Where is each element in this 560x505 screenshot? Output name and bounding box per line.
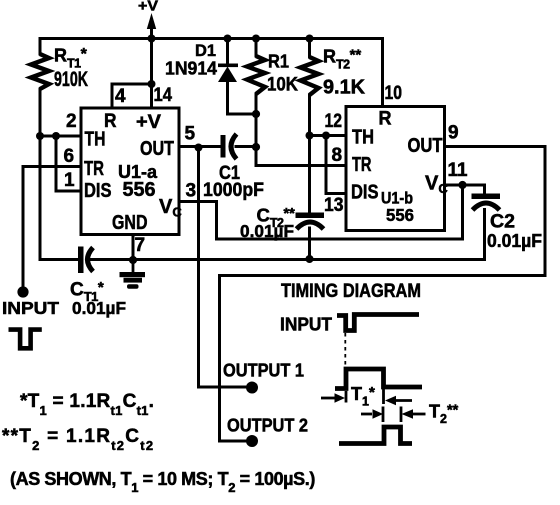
wire RT2 bottom lead to node TH-B (308, 95, 311, 136)
junction node TH-A at RT1 (36, 132, 44, 140)
svg-text:OUTPUT 2: OUTPUT 2 (227, 416, 308, 436)
wire +V stem to rail (150, 26, 153, 39)
wire trigger pin6 U1-a from INPUT (23, 165, 80, 168)
wire diode D1 top lead (226, 39, 229, 64)
svg-text:0.01µF: 0.01µF (487, 231, 542, 251)
wire INPUT drop (22, 167, 25, 289)
diode D1 1N914 (218, 64, 238, 83)
wire threshold pin12 U1-b (310, 134, 347, 137)
wire RT1 top lead (39, 39, 42, 55)
timing diagram T2 left arrow (361, 407, 383, 423)
timing diagram OUTPUT 2 waveform (339, 427, 412, 444)
svg-text:TR: TR (84, 158, 104, 180)
wire R1 bottom lead through node to TR-B (255, 94, 258, 166)
junction node D1/R1 (252, 110, 260, 118)
timing diagram trigger dashed line (344, 333, 346, 368)
svg-text:TIMING DIAGRAM: TIMING DIAGRAM (281, 281, 421, 302)
svg-text:TR: TR (352, 154, 372, 176)
svg-text:556: 556 (123, 179, 156, 201)
svg-text:9.1K: 9.1K (323, 77, 366, 99)
wire output pin5 U1-a to C1 (180, 145, 221, 148)
svg-text:TH: TH (352, 127, 374, 149)
timing diagram T2 right arrow (401, 407, 426, 423)
wire reset pin10 U1-b to rail (381, 39, 384, 106)
resistor R1 10K zigzag (247, 56, 265, 94)
junction node on rail at R1 (252, 35, 260, 43)
wire +V down to pins 4-14 bracket (150, 39, 153, 85)
svg-text:DIS: DIS (351, 182, 379, 204)
svg-text:OUT: OUT (140, 138, 174, 160)
INPUT negative pulse glyph (11, 330, 40, 349)
+V supply arrow (147, 13, 156, 29)
svg-text:+V: +V (136, 112, 161, 133)
timing diagram INPUT waveform (337, 315, 419, 331)
OUTPUT 1 terminal dot (246, 382, 258, 394)
svg-text:R1: R1 (268, 51, 289, 72)
wire node TH-A down to CT1 (40, 136, 77, 260)
timing diagram T1 right arrow (384, 389, 413, 405)
timing diagram OUTPUT 1 waveform (335, 369, 422, 389)
wire CT2 bottom lead to ground rail (308, 228, 311, 260)
svg-text:GND: GND (112, 212, 148, 234)
junction node on rail at RT2 (306, 35, 314, 43)
svg-text:INPUT: INPUT (280, 315, 332, 335)
wire VC pin3 U1-a routing to VC pin11 U1-b (180, 185, 463, 239)
svg-text:5: 5 (185, 124, 196, 145)
wire output pin9 U1-b routing down to OUTPUT 2 (220, 147, 546, 442)
wire output-1 drop from node OUT-A (197, 147, 200, 388)
svg-text:1: 1 (64, 170, 75, 191)
svg-text:11: 11 (448, 160, 468, 181)
resistor RT1 910K zigzag (31, 54, 49, 89)
wire tie pins 2-6-1 U1-a (55, 136, 58, 191)
wire trigger pin8 U1-b (256, 164, 346, 167)
svg-text:+V: +V (138, 0, 158, 15)
ground symbol (120, 260, 146, 289)
wire diode D1 bottom lead to node R1 (228, 82, 257, 115)
junction node TH-B tie (322, 132, 330, 140)
wire OUTPUT 1 stub (199, 386, 252, 389)
svg-text:OUT: OUT (408, 135, 443, 157)
svg-text:R: R (104, 111, 117, 132)
wire C1 right lead to node TR-B (236, 145, 256, 148)
svg-text:4: 4 (115, 86, 126, 107)
junction node pins 4-14 (148, 80, 156, 88)
wire tie pins 12-13 U1-b (325, 136, 328, 194)
wire R1 top lead (255, 39, 258, 57)
junction node TH-B at RT2 (306, 132, 314, 140)
svg-text:910K: 910K (54, 68, 88, 91)
junction node on rail at D1 (224, 35, 232, 43)
svg-text:2: 2 (66, 111, 77, 132)
junction node ground pin7 (129, 256, 137, 264)
capacitor C1 plates (221, 134, 237, 159)
svg-text:1N914: 1N914 (165, 58, 218, 79)
capacitor CT1 plates (78, 247, 93, 274)
wire C2 bottom lead (483, 210, 486, 260)
svg-text:6: 6 (64, 146, 75, 167)
wire +V top supply rail (40, 37, 383, 40)
svg-text:10: 10 (385, 83, 403, 104)
junction node OUT-A (195, 144, 203, 152)
svg-text:0.01µF: 0.01µF (240, 221, 294, 241)
timing diagram T1 left arrow (321, 391, 346, 403)
op-amp U1-b 556 IC box (346, 107, 445, 231)
junction node on rail at +V (148, 35, 156, 43)
wire discharge pin1 U1-a (56, 190, 80, 193)
junction node TR-B (252, 143, 260, 151)
junction node TH-A tie (52, 132, 60, 140)
capacitor C2 plates (472, 194, 501, 211)
svg-text:556: 556 (386, 205, 414, 225)
OUTPUT 2 terminal dot (246, 435, 258, 447)
svg-text:8: 8 (332, 145, 343, 166)
wire ground pin7 U1-a (132, 235, 135, 260)
junction node VC-B tap (458, 181, 466, 189)
svg-text:10K: 10K (267, 74, 298, 96)
svg-text:TH: TH (85, 129, 106, 151)
svg-text:7: 7 (135, 235, 146, 256)
svg-text:13: 13 (324, 195, 344, 216)
svg-text:INPUT: INPUT (2, 298, 59, 318)
svg-text:1000pF: 1000pF (203, 180, 264, 201)
wire RT1 bottom lead down to node TH-A (39, 89, 42, 136)
svg-text:OUTPUT 1: OUTPUT 1 (223, 361, 304, 381)
svg-text:14: 14 (154, 85, 173, 106)
op-amp U1-a 556 IC box (81, 108, 179, 235)
junction node CT2 ground (306, 255, 314, 263)
svg-text:12: 12 (325, 111, 343, 132)
wire CT2 top lead (308, 136, 311, 214)
wire RT2 top lead (308, 39, 311, 58)
svg-text:DIS: DIS (84, 180, 112, 202)
resistor RT2 9.1K zigzag (301, 57, 319, 95)
wire pins 4 and 14 bracket U1-a (112, 84, 152, 107)
wire ground rail (90, 258, 485, 261)
wire discharge pin13 U1-b (326, 192, 346, 195)
wire threshold pin2 U1-a (40, 135, 80, 138)
INPUT terminal dot (17, 286, 28, 297)
wire VC pin11 U1-b to C2 (445, 185, 485, 194)
svg-text:0.01µF: 0.01µF (72, 298, 126, 318)
capacitor CT2 plates (296, 213, 325, 230)
svg-text:C2: C2 (490, 211, 515, 233)
svg-text:3: 3 (186, 181, 197, 202)
svg-text:R: R (379, 109, 392, 130)
svg-text:9: 9 (448, 123, 459, 144)
